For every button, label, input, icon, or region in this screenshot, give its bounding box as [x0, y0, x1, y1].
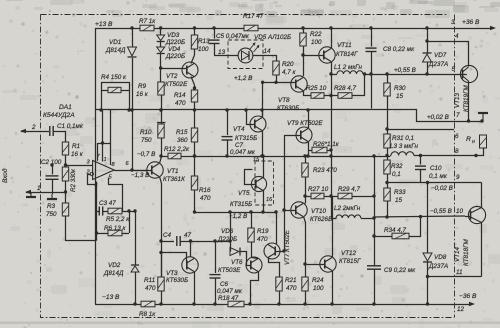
svg-text:VD7: VD7 [434, 52, 447, 59]
label pin5 [109, 175, 113, 181]
wire pin9 line y=182.5 [387, 182, 482, 184]
svg-text:−0,7 В: −0,7 В [137, 151, 155, 158]
label R10 750 [140, 129, 152, 144]
svg-text:R4 150 к: R4 150 к [101, 74, 127, 81]
svg-text:R17 47: R17 47 [243, 13, 264, 20]
svg-text:Д814Д: Д814Д [103, 270, 124, 277]
svg-text:VT13: VT13 [454, 92, 461, 108]
svg-text:360: 360 [177, 137, 188, 144]
resistor R8 (in bottom bus) [141, 301, 155, 307]
junction VD1 top [130, 26, 133, 29]
wire VD6 drop [230, 212, 232, 242]
label pin16 [266, 197, 273, 203]
label R26* 1,1к [313, 141, 340, 148]
resistor R25 10 [311, 93, 324, 99]
junction VD2 top [133, 209, 136, 212]
svg-text:С8 0,22 мк: С8 0,22 мк [383, 46, 415, 53]
junction R19 top [249, 210, 252, 213]
transistor VT13 КТ819ГМ [460, 65, 477, 121]
label L3 [390, 143, 418, 150]
label VT11 [336, 42, 358, 58]
junction R26 right [329, 148, 332, 151]
wire left box edge x=95 [95, 28, 97, 304]
label R18 47 [218, 295, 239, 302]
svg-text:VT5: VT5 [238, 190, 250, 197]
svg-text:VT14: VT14 [454, 246, 461, 262]
svg-text:С4: С4 [163, 232, 172, 239]
resistor R19 470 [248, 212, 254, 257]
resistor R1 16к [62, 142, 68, 167]
svg-text:750: 750 [46, 211, 57, 218]
svg-text:R16: R16 [199, 187, 211, 194]
label VD7 [428, 52, 448, 68]
svg-text:Д220Б: Д220Б [165, 53, 185, 60]
junction R4 right [127, 108, 130, 111]
resistor R10 750 [157, 110, 166, 156]
label pin1 [104, 157, 107, 163]
wire output spine x=374 [374, 156, 376, 266]
wire R6 vertical link [129, 211, 131, 233]
junction VT3 collector top [189, 239, 192, 242]
label R1 16к [71, 143, 84, 158]
label -13В [102, 294, 120, 301]
resistor R6 13к [97, 230, 130, 236]
resistor R21 470 [276, 277, 282, 304]
label R14 470 [174, 92, 186, 107]
label VD4 [165, 46, 185, 60]
capacitor C1 0,1мк [50, 126, 66, 143]
label pin7 [456, 112, 460, 119]
resistor R16 470 [191, 176, 197, 212]
svg-text:Д220Б: Д220Б [217, 236, 237, 243]
transistor VT1 КТ361К [147, 157, 163, 277]
junction VD4-R9-base [159, 66, 162, 69]
label R25 10 [306, 85, 327, 92]
wire input arrow pin2 ext [20, 129, 49, 133]
capacitor C6 0,047мк [210, 241, 221, 304]
junction VT9 emitter bus [306, 154, 309, 157]
optocoupler box VD5 (dashed) [228, 40, 263, 69]
label VD1 [105, 39, 126, 54]
junction VD8 top [426, 181, 429, 184]
wire output node to VT1 [132, 170, 147, 172]
resistor R23 470 [302, 156, 308, 203]
capacitor C2 100 [46, 165, 59, 194]
label C1 [57, 123, 84, 130]
svg-text:9: 9 [456, 174, 460, 181]
transistor box VT5 (dashed) [255, 161, 274, 205]
wire -1.2V line y=212 [195, 212, 277, 214]
junction L1 left [329, 72, 332, 75]
svg-text:R25 10: R25 10 [306, 85, 327, 92]
wire opamp pin1 line [102, 110, 104, 162]
svg-text:VT10: VT10 [311, 208, 327, 215]
wire VT7 base [275, 251, 284, 253]
transistor VT10 КТ626Б [291, 202, 307, 265]
junction VT3 base node [159, 251, 162, 254]
svg-text:16 к: 16 к [136, 91, 149, 98]
svg-text:15: 15 [395, 197, 403, 204]
svg-text:R28 4,7: R28 4,7 [334, 85, 357, 92]
junction C6 bottom [213, 302, 216, 305]
wire bottom -36V bus y=304 [95, 302, 475, 306]
transistor VT2 КТ502Е [182, 55, 198, 85]
svg-text:С5 0,047мк: С5 0,047мк [216, 33, 250, 40]
wire VT10 base [284, 210, 296, 212]
wire VD2 drop [135, 212, 137, 266]
svg-text:R9: R9 [138, 83, 147, 90]
svg-text:4,7 к: 4,7 к [282, 69, 297, 76]
junction C6 top [213, 239, 216, 242]
resistor R11 470 [158, 252, 164, 304]
resistor R20 [273, 61, 279, 82]
svg-text:7: 7 [456, 112, 460, 119]
label R33 15 [394, 189, 406, 204]
svg-text:R32: R32 [391, 163, 403, 170]
resistor R9 [158, 82, 164, 110]
transistor VT14 КТ818ГМ [468, 183, 485, 277]
junction C7 bottom [225, 154, 228, 157]
svg-text:С6: С6 [220, 281, 229, 288]
svg-text:750: 750 [141, 137, 152, 144]
ground (input) [26, 192, 36, 197]
resistor R22 [300, 28, 306, 76]
junction L2 right [372, 216, 375, 219]
junction VT8 base node [261, 81, 278, 84]
junction x331-bus156 [329, 154, 332, 157]
label C10 [429, 165, 448, 180]
svg-text:+13 В: +13 В [95, 21, 113, 28]
label ext pin 2 [31, 124, 36, 131]
capacitor C9 0,22мк [367, 266, 381, 304]
junction R2-input gnd [64, 190, 67, 193]
wire VT9 base [284, 135, 301, 137]
svg-text:R3: R3 [47, 203, 56, 210]
diode VD1 (Д814Д zener) [128, 47, 137, 57]
label VT13 (rotated) [454, 85, 470, 112]
svg-text:R34 4,7: R34 4,7 [384, 227, 407, 234]
label R21 470 [285, 277, 297, 292]
label R2 330к (rotated) [70, 168, 77, 192]
svg-text:R12 2,2к: R12 2,2к [164, 146, 190, 153]
svg-text:14: 14 [264, 48, 272, 55]
svg-text:L1 2 мкГн: L1 2 мкГн [334, 64, 362, 71]
transistor VT4 КТ315Б [250, 111, 266, 157]
junction R15-bus [193, 154, 196, 157]
svg-text:−1,3 В: −1,3 В [131, 172, 149, 179]
svg-text:1: 1 [104, 157, 107, 163]
junction VT7 base [282, 249, 285, 252]
resistor R3 750 [62, 203, 96, 241]
wire VT3 collector [190, 241, 192, 257]
svg-text:13: 13 [218, 49, 226, 56]
resistor R29 4,7 [324, 193, 374, 199]
label pin13 [218, 49, 226, 56]
label R19 470 [257, 228, 269, 243]
wire x331 link [331, 96, 333, 197]
svg-text:С1 0,1мк: С1 0,1мк [57, 123, 84, 130]
svg-text:н: н [472, 139, 475, 145]
wire VT1 base [145, 170, 152, 172]
svg-text:−13 В: −13 В [102, 294, 120, 301]
wire feedback bus y=156 [195, 156, 391, 158]
label VT14 (rotated) [454, 239, 470, 266]
svg-text:5: 5 [452, 66, 456, 73]
junction pin1-143 [101, 141, 104, 144]
junction pin9 node [385, 181, 388, 184]
junction VT6 emitter bus [248, 302, 251, 305]
junction R25-R28 [329, 94, 332, 97]
resistor R17 (in top bus) [244, 25, 258, 31]
label VT9 КТ502Е [287, 120, 323, 127]
label R24 100 [312, 277, 324, 292]
label pin11c [456, 269, 463, 276]
label R29 4,7 [338, 186, 361, 193]
capacitor C7 0,047мк [222, 110, 233, 156]
svg-text:VD6: VD6 [221, 228, 234, 235]
junction VT5 top [261, 154, 264, 157]
svg-text:КТ502Е: КТ502Е [165, 81, 188, 88]
label pin12 [457, 306, 465, 313]
svg-text:Вход: Вход [1, 168, 9, 183]
label +0,55В [394, 67, 416, 74]
svg-text:КТ630Б: КТ630Б [277, 105, 299, 112]
svg-text:R27 10: R27 10 [308, 186, 329, 193]
svg-text:100: 100 [198, 46, 209, 53]
border frame (dash-dot) [41, 15, 455, 318]
label +1,2В [234, 75, 252, 82]
junction R30 top [385, 72, 388, 75]
junction VD7 bottom [425, 72, 428, 75]
svg-text:R26*1,1к: R26*1,1к [313, 141, 340, 148]
svg-text:0,1: 0,1 [392, 171, 401, 178]
wire VT12 base line [305, 264, 325, 266]
wire VD6 anode link [230, 241, 232, 252]
junction VT4 base top [244, 108, 247, 111]
junction R14 bottom [193, 108, 196, 111]
label VT1 [163, 168, 185, 183]
wire VT14 base [465, 216, 471, 218]
svg-text:470: 470 [257, 236, 268, 243]
svg-text:R18 47: R18 47 [218, 295, 239, 302]
label VD6 [217, 228, 237, 243]
junction VD6 line [228, 239, 231, 242]
label C3 47 [99, 200, 116, 207]
svg-text:Д237А: Д237А [428, 61, 448, 68]
junction output-ground [480, 119, 483, 122]
svg-text:+0,55 В: +0,55 В [394, 67, 416, 74]
transistor VT5 КТ315Б [245, 168, 267, 205]
label pin15 [253, 157, 260, 163]
label pin4 [455, 33, 459, 40]
svg-text:+0,02 В: +0,02 В [427, 114, 449, 121]
junction VD2 bottom [133, 302, 136, 305]
wire pin6 line y=129 [387, 129, 454, 131]
ground (C2) [47, 194, 57, 199]
junction C7 top [225, 108, 228, 111]
junction Rн bottom [474, 154, 477, 157]
wire feedback bus right y=155 [414, 155, 476, 157]
label R8 1к [139, 311, 156, 318]
label R22 100 [310, 31, 322, 46]
diode VD3 Д220Б [157, 35, 165, 42]
junction R5-R6 node [127, 209, 130, 212]
junction VD7 top [425, 26, 428, 29]
svg-text:КТ814Г: КТ814Г [336, 51, 358, 58]
svg-text:11: 11 [456, 269, 463, 276]
svg-text:VT9 КТ502Е: VT9 КТ502Е [287, 120, 323, 127]
wire opamp pin7 line [98, 143, 103, 161]
svg-text:0,1 мк: 0,1 мк [429, 173, 448, 180]
svg-text:К544УД2А: К544УД2А [43, 112, 75, 119]
svg-text:R5 2,2 к: R5 2,2 к [106, 216, 130, 223]
label VT12 [339, 250, 361, 265]
label DA1 [43, 104, 75, 119]
svg-text:VT11: VT11 [337, 42, 352, 49]
label R31 0,1 [392, 135, 414, 142]
svg-text:16: 16 [266, 197, 273, 203]
label pin8 [112, 162, 116, 168]
label C9 [384, 267, 416, 274]
svg-text:С2 100: С2 100 [41, 159, 62, 166]
transistor VT12 КТ815Г [320, 197, 336, 305]
svg-text:R10: R10 [140, 129, 152, 136]
wire opamp pin3 stub [66, 165, 93, 167]
svg-text:1: 1 [37, 185, 41, 192]
label +13В [95, 21, 113, 28]
resistor R27 10 [305, 193, 324, 199]
label R32 0,1 [391, 163, 403, 178]
label Rн [466, 136, 475, 145]
svg-text:+36 В: +36 В [462, 19, 480, 26]
resistor R7 (in top bus) [140, 25, 154, 31]
svg-text:R23 470: R23 470 [313, 167, 337, 174]
junction C4 left [159, 239, 162, 242]
label R30 15 [394, 85, 406, 100]
label L2 [334, 205, 361, 212]
label C2 100 [41, 159, 62, 166]
svg-text:6: 6 [455, 133, 459, 140]
wire VD6 to VT6 base [241, 252, 251, 266]
label pin3 +36В [451, 19, 480, 26]
wire mid bus y=109.5 with jog to output [96, 110, 484, 122]
junction VT11 collector top [329, 26, 332, 29]
junction R1-R2-pin3 [64, 163, 67, 166]
label +0,02В [427, 114, 449, 121]
junction R31 bottom [385, 154, 388, 157]
wire LED out to R20 [254, 56, 277, 62]
transistor VT6 КТ503Е [246, 257, 262, 305]
label Вход (rotated input label) [1, 168, 9, 183]
svg-text:R30: R30 [394, 85, 406, 92]
junction spine-bus156 [372, 154, 375, 157]
junction L1 right [363, 72, 366, 75]
wire VD8 top link [427, 183, 429, 254]
label VD3 [165, 32, 185, 46]
junction VT5 stub bottom [261, 210, 264, 213]
wire opamp output y=170 [114, 170, 147, 172]
svg-text:VT4: VT4 [233, 126, 245, 133]
junction VT10 base [282, 208, 285, 211]
junction R23 top [303, 154, 306, 157]
svg-text:470: 470 [200, 195, 211, 202]
svg-text:8: 8 [455, 148, 459, 155]
resistor R4 150к loop [101, 83, 130, 111]
svg-text:R7 1к: R7 1к [139, 18, 156, 25]
junction VT13 emitter-output [467, 119, 470, 122]
svg-text:470: 470 [286, 285, 297, 292]
label ext pin 1 [37, 185, 41, 192]
svg-text:R29 4,7: R29 4,7 [338, 186, 361, 193]
wire VT13 collector link [428, 42, 469, 67]
label R12 2,2к [164, 146, 190, 153]
wire input arrow pin1 ext [25, 190, 66, 194]
svg-text:3: 3 [451, 19, 455, 26]
label R13 100 [198, 38, 210, 53]
svg-text:VT2: VT2 [166, 73, 178, 80]
inductor L3 3мкГн [390, 152, 414, 156]
inductor L2 2мкГн [332, 197, 375, 219]
label pin6c [455, 133, 459, 140]
svg-text:DA1: DA1 [59, 104, 72, 111]
wire opamp pin4 path [96, 182, 98, 241]
resistor R13 [191, 28, 197, 55]
wire VT3 base link [162, 253, 187, 262]
junction R34 right stub [419, 215, 422, 218]
junction VD7-collector [425, 39, 428, 42]
svg-text:10: 10 [456, 208, 464, 215]
label R23 470 [313, 167, 337, 174]
junction C10 top [419, 154, 422, 157]
wire opamp pin5 path [109, 178, 123, 212]
label -1,3В [131, 172, 149, 179]
svg-text:R19: R19 [257, 228, 269, 235]
label R20 4,7к [282, 61, 297, 76]
label -0,55В [430, 208, 452, 215]
label R7 1к [139, 18, 156, 25]
svg-text:КТ630Б: КТ630Б [166, 277, 188, 284]
junction C8 bottom [369, 72, 372, 75]
connector boundary line (dash-dot, pins 3-12) [454, 15, 456, 318]
svg-text:С9 0,22 мк: С9 0,22 мк [384, 267, 416, 274]
svg-text:С10: С10 [430, 165, 442, 172]
svg-text:R31 0,1: R31 0,1 [392, 135, 414, 142]
transistor VT11 КТ814Г [319, 29, 335, 96]
svg-text:R22: R22 [310, 31, 322, 38]
wire VT11 base [303, 55, 324, 57]
label pin4 [95, 183, 98, 189]
label R9 16к [136, 83, 149, 98]
svg-text:КТ819ГМ: КТ819ГМ [463, 85, 470, 112]
label VT6 [218, 259, 243, 274]
svg-text:100: 100 [311, 39, 322, 46]
wire VT4 base [247, 111, 255, 125]
resistor R14 [191, 90, 197, 110]
label R16 470 [199, 187, 211, 202]
label VT2 [165, 73, 188, 88]
label R17 47 [243, 13, 264, 20]
transistor VT9 КТ502Е [296, 111, 312, 157]
label VD2 [103, 262, 124, 277]
svg-text:КТ818ГМ: КТ818ГМ [463, 239, 470, 266]
svg-text:КТ361К: КТ361К [163, 176, 185, 183]
junction R9 bottom [159, 108, 162, 111]
junction R13 top [193, 26, 196, 29]
label VT5 [230, 190, 252, 208]
wire opamp pin8 line [103, 110, 111, 165]
capacitor C4 47 [177, 236, 230, 246]
junction VT2-R14 [193, 86, 196, 89]
